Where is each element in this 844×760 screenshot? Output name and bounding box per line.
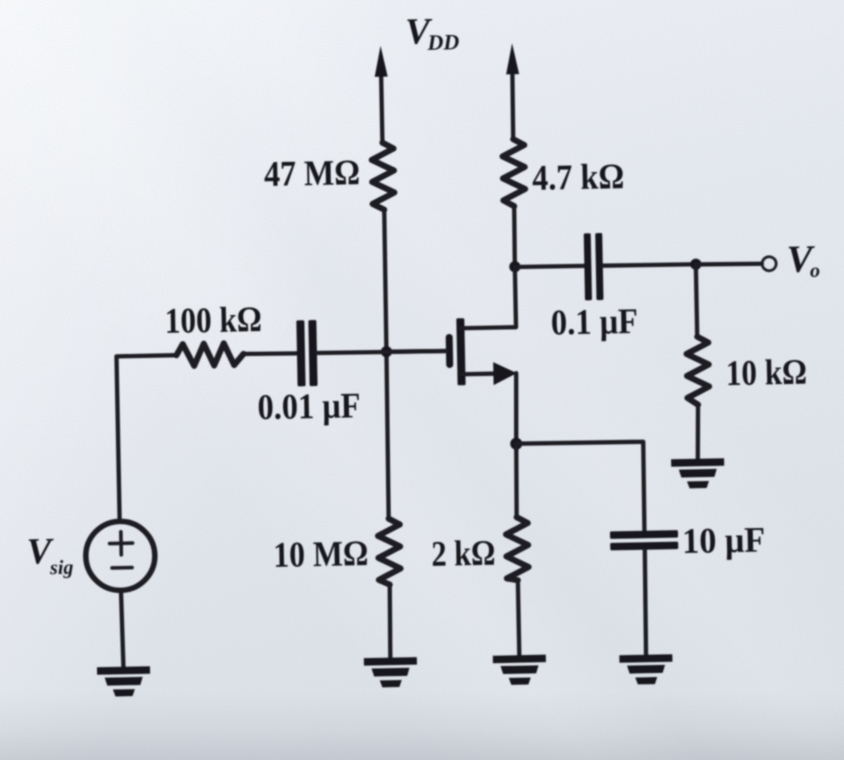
wire bypass branch horizontal xyxy=(516,441,645,533)
wire Vsig to ground xyxy=(121,591,123,668)
power rail VDD label xyxy=(405,11,460,56)
wire gate lead xyxy=(386,351,446,353)
capacitor C 10uF plates xyxy=(610,530,678,550)
transistor Q1 gate bar xyxy=(446,334,454,368)
svg-text:4.7 kΩ: 4.7 kΩ xyxy=(532,156,625,198)
ground (2k) xyxy=(493,655,547,686)
ground (10uF) xyxy=(619,654,673,685)
capacitor C 0.01uF plates xyxy=(296,320,317,386)
resistor R 47M xyxy=(371,143,394,210)
wire gate node down to 10M xyxy=(385,352,389,519)
resistor R 10M xyxy=(378,518,401,584)
node source xyxy=(510,438,522,450)
svg-text:0.1 μF: 0.1 μF xyxy=(551,301,639,343)
wire 2k to ground xyxy=(518,580,519,656)
wire 0.1uF to output node xyxy=(603,264,696,266)
wire 100k to 0.01uF xyxy=(243,353,297,355)
source Vsig circle xyxy=(85,521,155,591)
svg-text:DD: DD xyxy=(426,29,459,55)
svg-text:47 MΩ: 47 MΩ xyxy=(264,152,361,194)
wire output node down to 10k xyxy=(696,264,697,336)
wire 0.01uF to gate xyxy=(316,351,446,354)
wire xyxy=(380,141,384,146)
VDD arrow (right, to 4.7k) xyxy=(512,68,514,139)
wire drain node to 0.1uF xyxy=(515,266,585,268)
wire 10uF to ground xyxy=(644,550,647,656)
wire source node down to 2k xyxy=(515,444,517,518)
resistor R 4.7k xyxy=(502,139,525,206)
label Vsig xyxy=(26,531,73,580)
resistor R 100k horizontal xyxy=(176,343,243,366)
VDD arrow (left, to 47M) xyxy=(381,71,382,143)
svg-text:100 kΩ: 100 kΩ xyxy=(164,299,262,341)
wire 10M to ground xyxy=(389,585,391,659)
capacitor C 0.1uF xyxy=(584,233,604,300)
label Vo xyxy=(786,238,820,282)
wire 47M bottom to gate node xyxy=(384,210,387,352)
source Vsig plus sign xyxy=(109,532,132,555)
wire output node to terminal xyxy=(696,263,762,265)
wire input top corner xyxy=(116,355,179,520)
transistor Q1 drain lead xyxy=(460,267,516,329)
terminal Vo open circle xyxy=(762,257,776,271)
svg-text:10 kΩ: 10 kΩ xyxy=(726,352,808,394)
svg-text:10 MΩ: 10 MΩ xyxy=(273,533,369,575)
wire 4.7k to drain node xyxy=(514,206,516,266)
svg-text:sig: sig xyxy=(49,557,74,579)
svg-text:2 kΩ: 2 kΩ xyxy=(431,533,496,574)
resistor R 2k xyxy=(506,517,529,580)
node gate xyxy=(381,346,392,357)
wire source to source node xyxy=(515,373,518,444)
ground (Vsig) xyxy=(97,666,151,697)
resistor R 10k xyxy=(686,336,709,404)
transistor Q1 source lead with arrow xyxy=(462,371,498,376)
ground (10M) xyxy=(364,657,418,688)
node drain xyxy=(509,261,520,272)
svg-text:10 μF: 10 μF xyxy=(682,519,766,561)
node output xyxy=(690,259,701,270)
transistor Q1 channel bar xyxy=(456,318,465,385)
source Vsig minus sign xyxy=(112,566,132,570)
ground (10k) xyxy=(671,458,725,489)
svg-text:0.01 μF: 0.01 μF xyxy=(257,385,361,427)
svg-text:o: o xyxy=(810,260,820,282)
wire 10k to ground xyxy=(697,405,699,460)
